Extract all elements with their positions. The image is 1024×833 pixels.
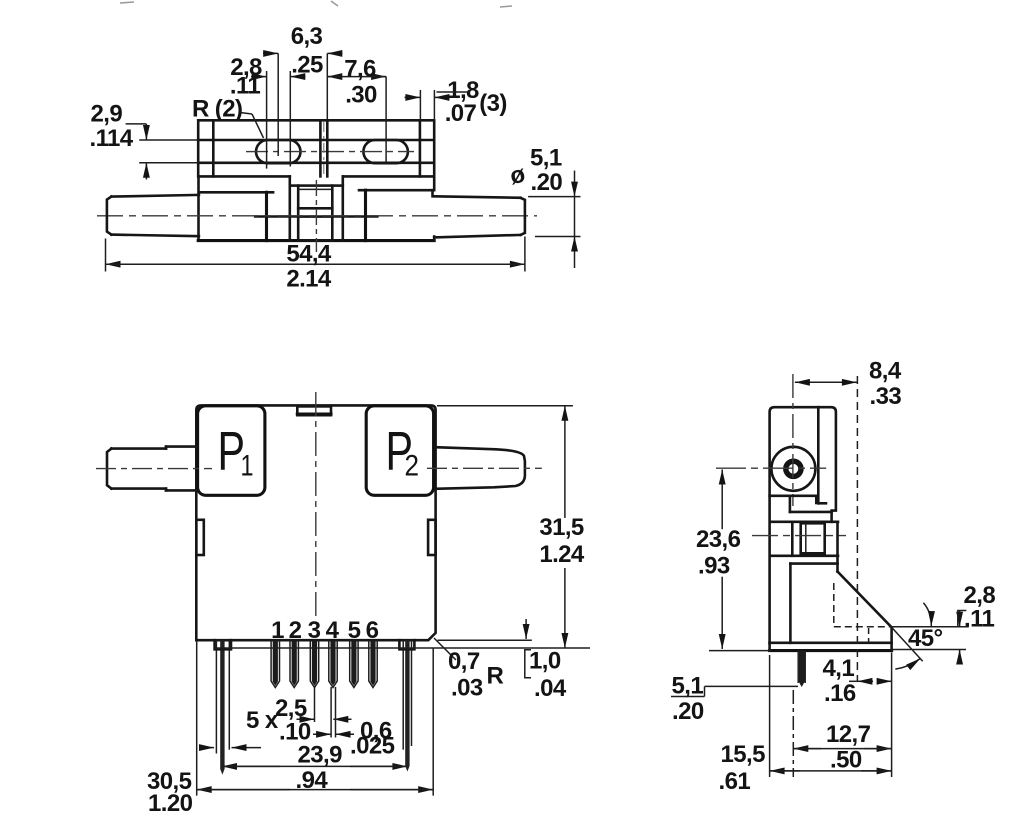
dimension 54,4/2.14	[106, 237, 525, 293]
svg-text:ø: ø	[508, 161, 528, 191]
svg-text:.25: .25	[291, 52, 323, 79]
svg-text:5: 5	[348, 617, 361, 644]
svg-text:4: 4	[326, 617, 340, 644]
port tube left (top view)	[107, 195, 199, 236]
svg-text:R: R	[487, 663, 504, 690]
dimension 30,5/1.20	[147, 641, 433, 817]
right side latch mark	[428, 520, 436, 555]
leg width gauge arrows	[201, 747, 262, 749]
svg-text:.03: .03	[451, 675, 483, 702]
body step left	[255, 192, 298, 240]
45 degree angle dimension	[892, 603, 943, 669]
seating plane line	[215, 647, 590, 649]
svg-text:.07: .07	[445, 100, 477, 127]
left mounting leg	[215, 640, 231, 774]
P2 port box	[366, 406, 433, 496]
top view horizontal centerline	[97, 215, 537, 217]
flange channel lower line	[198, 162, 434, 165]
svg-text:1: 1	[241, 450, 254, 483]
scanner specks	[120, 1, 512, 7]
dimension 4,1/.16	[823, 655, 892, 707]
pin 1	[271, 640, 279, 687]
svg-text:1,0: 1,0	[529, 648, 561, 675]
dimension 6,3/.25	[263, 23, 343, 79]
dimension 23,9/.94	[222, 742, 407, 795]
svg-text:.04: .04	[534, 675, 567, 702]
svg-text:12,7: 12,7	[826, 721, 871, 748]
dimension 23,6/.93	[696, 470, 771, 651]
front part vertical centerline	[315, 392, 317, 618]
latch centerline	[752, 535, 846, 537]
dimension 0,6/.025	[313, 687, 395, 760]
svg-text:.30: .30	[345, 82, 377, 109]
pin 5	[350, 640, 358, 687]
center port block	[290, 176, 343, 240]
dimension 1,8/.07 (3)	[405, 77, 507, 127]
dimension 31,5/1.24	[437, 406, 585, 648]
hidden chamfer lines (dashed)	[834, 583, 890, 642]
svg-text:.20: .20	[672, 698, 704, 725]
svg-text:45°: 45°	[908, 625, 943, 652]
slot right vertical centerline / 7,6 extension	[385, 77, 387, 162]
svg-text:.114: .114	[90, 125, 134, 152]
slot left obround	[256, 140, 301, 163]
side step under circle	[770, 496, 817, 503]
dimension 8,4/.33	[795, 358, 902, 683]
slot left vertical centerline / 6,3 extension	[277, 53, 279, 156]
port circle ring	[786, 461, 801, 476]
svg-text:7,6: 7,6	[344, 56, 376, 83]
dimension 5 x 2,5/.10	[246, 687, 352, 746]
bottom flange (side)	[770, 643, 892, 651]
svg-text:.16: .16	[824, 680, 856, 707]
right mounting leg	[399, 640, 414, 771]
body bottom extension line	[438, 639, 532, 641]
svg-text:1.20: 1.20	[148, 790, 193, 817]
flange channel upper line	[198, 139, 434, 142]
front body outline	[196, 405, 435, 640]
svg-text:.20: .20	[531, 169, 563, 196]
dimension 2,9/.114	[90, 101, 199, 180]
svg-text:54,4: 54,4	[286, 241, 332, 268]
svg-text:5 x: 5 x	[246, 707, 279, 734]
flange inset line right	[419, 120, 422, 176]
side body outline	[770, 407, 836, 643]
pin 6	[369, 640, 377, 687]
dimension 2,8/.11 (side)	[889, 582, 995, 664]
side inner vertical line	[818, 407, 826, 503]
flange inset line left	[212, 120, 215, 176]
svg-text:2,9: 2,9	[91, 101, 123, 128]
svg-text:.11: .11	[964, 606, 994, 633]
left tube centerline	[96, 468, 212, 470]
svg-text:31,5: 31,5	[539, 514, 584, 541]
pin 4	[329, 640, 337, 687]
right tube centerline	[427, 467, 542, 469]
side lower right profile with 45 deg chamfer	[790, 522, 891, 651]
svg-text:23,9: 23,9	[298, 742, 343, 769]
svg-text:23,6: 23,6	[696, 526, 741, 553]
label R (2) with leader	[192, 96, 264, 139]
svg-text:6,3: 6,3	[291, 23, 323, 50]
dimension 1,0/.04	[525, 619, 567, 702]
pin 2	[290, 640, 298, 687]
P1 port box	[198, 406, 265, 496]
dimension 2,8/.11	[230, 54, 306, 100]
svg-text:2.14: 2.14	[286, 266, 332, 293]
side leg	[798, 651, 805, 687]
svg-text:15,5: 15,5	[721, 741, 766, 768]
side latch section	[772, 522, 838, 556]
svg-text:1.24: 1.24	[539, 541, 585, 568]
svg-text:(3): (3)	[479, 90, 507, 117]
side zigzag notch	[790, 497, 832, 512]
dimension 7,6/.30	[327, 56, 386, 109]
svg-text:5,1: 5,1	[672, 673, 704, 700]
side latch square	[801, 523, 825, 553]
label 5,1/.20 with leader (side leg)	[671, 673, 798, 726]
svg-text:0,7: 0,7	[448, 648, 480, 675]
dimension dia 5,1/.20 (top view)	[508, 145, 581, 269]
svg-text:.025: .025	[350, 733, 395, 760]
pin 3	[310, 640, 318, 687]
top view part vertical centerline	[316, 122, 323, 252]
port tube right (top view)	[434, 196, 525, 237]
top center notch	[297, 406, 331, 415]
2,8 extension lines	[267, 71, 291, 169]
svg-text:.61: .61	[719, 768, 751, 795]
dimension 12,7/.50	[793, 653, 891, 778]
slots horizontal centerline	[246, 151, 414, 153]
1,8 extension ticks	[420, 90, 434, 120]
port circle centerlines	[716, 374, 826, 506]
svg-text:5,1: 5,1	[530, 145, 562, 172]
svg-text:.50: .50	[830, 747, 862, 774]
svg-text:.93: .93	[698, 553, 730, 580]
svg-text:.33: .33	[870, 383, 902, 410]
svg-text:4,1: 4,1	[823, 655, 855, 682]
svg-text:2: 2	[405, 450, 420, 483]
svg-text:1: 1	[271, 617, 284, 644]
svg-text:2: 2	[289, 617, 302, 644]
svg-text:3: 3	[308, 617, 321, 644]
svg-text:8,4: 8,4	[869, 358, 902, 385]
dimension 15,5/.61	[719, 655, 892, 795]
pin numbers 1-6	[271, 617, 379, 644]
body step right	[332, 190, 377, 240]
slot right obround	[363, 140, 408, 163]
right port tube (front)	[436, 447, 525, 489]
svg-text:6: 6	[366, 617, 379, 644]
svg-text:R (2): R (2)	[192, 96, 242, 123]
top view body below flange	[198, 176, 434, 240]
corner chamfer label 0,7/.03 R with leader	[434, 638, 504, 702]
body center double lines	[320, 53, 327, 176]
port circle outer	[771, 447, 815, 491]
left side latch mark	[196, 520, 204, 555]
left port tube (front)	[107, 447, 197, 491]
top view flange outline	[198, 120, 434, 176]
